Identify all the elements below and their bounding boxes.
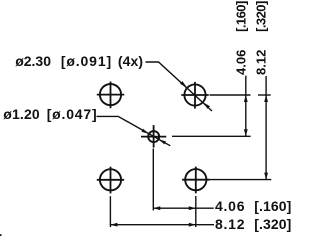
arrow left at (110.4,224.7) bbox=[110, 223, 117, 227]
leader line for ø2.30 label bbox=[146, 62, 213, 111]
extension line A (from TR hole, y=95) bbox=[210, 94, 251, 96]
arrow left at (153.3,208.2) bbox=[153, 206, 160, 210]
arrow right at (195.8,224.7) bbox=[189, 223, 196, 227]
svg-text:4.06[.160]: 4.06[.160] bbox=[215, 198, 291, 214]
extension line B (from center hole, y=136.3) bbox=[172, 135, 251, 137]
arrow down at (245.8,136.3) bbox=[244, 129, 248, 136]
extension line F (from BR hole down, x=195.8) bbox=[195, 196, 197, 227]
dimension line 8.12 vertical (x=266.1) bbox=[265, 76, 267, 180]
arrow down at (266.1,179.6) bbox=[264, 173, 268, 180]
hole TL (ø2.30 pad, crosshair circle) bbox=[97, 82, 124, 109]
hole C (ø1.20 center hole, crosshair circle) bbox=[141, 125, 166, 148]
extension line C (from BR hole, y=179.6) bbox=[210, 179, 272, 181]
arrow up at (245.8,95) bbox=[244, 95, 248, 102]
arrow right at (195.8,208.2) bbox=[189, 206, 196, 210]
svg-text:ø2.30[ø.091](4x): ø2.30[ø.091](4x) bbox=[15, 53, 143, 69]
leader line for ø1.20 label bbox=[97, 116, 171, 145]
hole TR (ø2.30 pad, crosshair circle) bbox=[181, 82, 208, 109]
extension line D (from center hole down, x=153.3) bbox=[152, 149, 154, 211]
extension line E (from BL hole down, x=110.4) bbox=[109, 196, 111, 227]
svg-text:4.06[.160]: 4.06[.160] bbox=[234, 1, 249, 75]
arrow up at (266.1,95) bbox=[264, 95, 268, 102]
svg-text:8.12[.320]: 8.12[.320] bbox=[215, 216, 291, 232]
dimension line 4.06 vertical (x=245.8) bbox=[245, 76, 247, 137]
leader arrow into C hole far side bbox=[159, 139, 166, 144]
dimension line 4.06 horizontal (y=208.2) bbox=[153, 207, 213, 209]
leader arrow into C hole near side bbox=[142, 129, 149, 134]
dimension line 8.12 horizontal (y=224.7) bbox=[110, 224, 214, 226]
leader arrow into TR hole near side bbox=[180, 81, 187, 88]
leader arrow into TR hole far side bbox=[203, 102, 210, 109]
svg-text:8.12[.320]: 8.12[.320] bbox=[254, 1, 269, 75]
svg-text:ø1.20[ø.047]: ø1.20[ø.047] bbox=[3, 106, 97, 122]
hole BR (ø2.30 pad, crosshair circle) bbox=[182, 167, 209, 194]
hole BL (ø2.30 pad, crosshair circle) bbox=[97, 167, 124, 194]
corner speck bottom-left bbox=[0, 234, 2, 236]
